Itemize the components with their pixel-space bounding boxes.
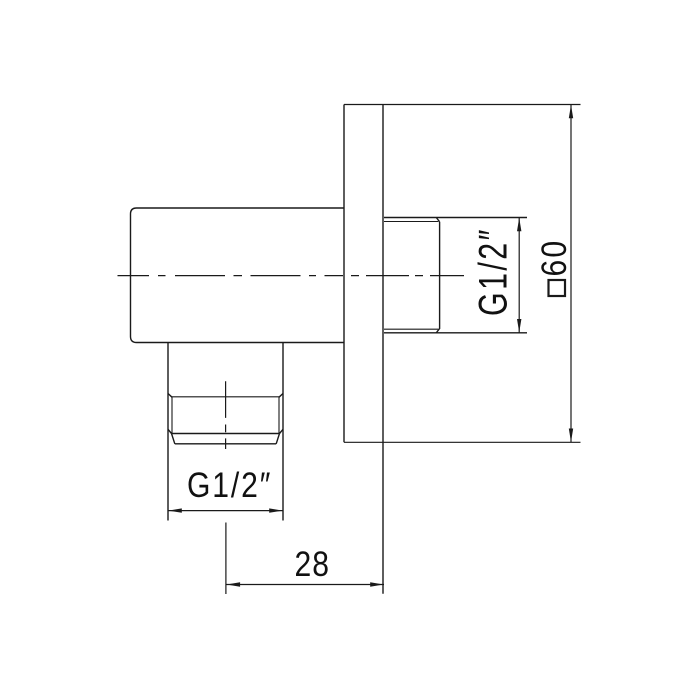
svg-text:28: 28 [295, 544, 331, 584]
svg-text:G1/2″: G1/2″ [187, 465, 272, 505]
svg-text:G1/2″: G1/2″ [470, 227, 515, 316]
svg-text:60: 60 [534, 239, 574, 277]
